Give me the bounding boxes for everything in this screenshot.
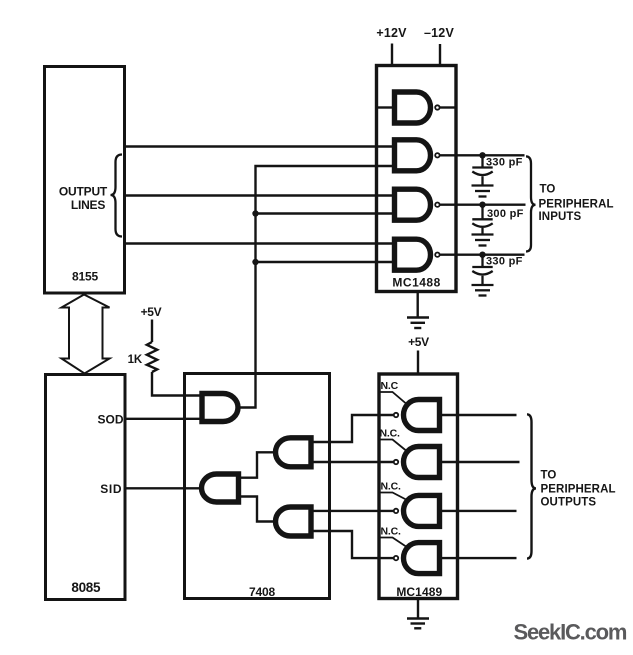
wire output line 1 from 8155 <box>125 145 392 147</box>
value label C2 300 pF <box>487 208 524 220</box>
IC MC1488 <box>377 66 457 292</box>
svg-text:PERIPHERAL: PERIPHERAL <box>541 484 616 496</box>
wire U1A output <box>440 106 456 108</box>
stub N.C. R2 <box>380 440 407 451</box>
receiver gate R2 (MC1489, faces left) <box>404 447 440 478</box>
brace to peripheral outputs <box>527 414 536 558</box>
wire output line 3 from 8155 <box>125 242 392 244</box>
label N.C. R4 <box>381 526 401 538</box>
junction riser-gate3 <box>252 210 392 216</box>
value label C3 330 pF <box>486 256 523 268</box>
wire gate A output riser to MC1488 <box>238 166 392 408</box>
ground C3 <box>472 285 494 296</box>
svg-text:TO: TO <box>541 470 557 482</box>
svg-text:300 pF: 300 pF <box>487 208 524 220</box>
label 8085 <box>71 580 101 595</box>
wire SOD <box>125 418 200 420</box>
supply +5V (MC1489) <box>408 335 429 349</box>
IC 7408 <box>185 374 330 599</box>
bus arrow 8155-8085 <box>62 295 110 374</box>
stub N.C. R1 <box>380 392 407 404</box>
ground C1 <box>472 186 494 197</box>
wire R2 to C bottom input <box>312 461 394 463</box>
svg-text:OUTPUTS: OUTPUTS <box>541 497 597 509</box>
label N.C. R2 <box>380 428 400 440</box>
wire +12V lead <box>391 44 393 66</box>
svg-text:MC1489: MC1489 <box>396 585 442 599</box>
label TO PERIPHERAL OUTPUTS <box>541 470 616 509</box>
svg-text:SOD: SOD <box>97 412 123 426</box>
svg-text:–12V: –12V <box>424 26 454 40</box>
label SID <box>100 482 122 496</box>
capacitor C2 300pF <box>472 205 492 235</box>
label 7408 <box>249 585 275 599</box>
watermark SeekIC.com <box>514 620 627 645</box>
junction U1D-cap <box>479 252 485 258</box>
brace output lines <box>111 155 123 237</box>
supply +12V <box>376 26 407 40</box>
label MC1489 <box>396 585 442 599</box>
label N.C. R3 <box>381 481 401 493</box>
svg-text:INPUTS: INPUTS <box>539 211 582 223</box>
AND gate B (7408 SID combine, faces left) <box>202 474 239 502</box>
wire U1B output <box>440 154 525 156</box>
svg-text:+12V: +12V <box>376 26 407 40</box>
bubble U1D <box>435 253 439 257</box>
wire R2 to peripheral <box>442 461 520 463</box>
ground MC1488 <box>407 292 429 329</box>
driver gate U1D (MC1488) <box>395 239 431 270</box>
receiver gate R1 (MC1489, faces left) <box>404 400 440 431</box>
bubble U1A <box>435 105 439 109</box>
bubble R3 <box>394 509 398 513</box>
capacitor C3 330pF <box>472 255 492 285</box>
driver gate U1B (MC1488) <box>395 140 431 171</box>
svg-text:SID: SID <box>100 482 122 496</box>
label OUTPUT LINES <box>59 185 108 213</box>
wire D output to B input <box>241 497 275 522</box>
svg-text:OUTPUT: OUTPUT <box>59 185 108 199</box>
wire U1D output <box>440 253 525 255</box>
IC MC1489 <box>379 374 458 599</box>
wire R4 to D bottom input <box>312 531 394 558</box>
svg-text:PERIPHERAL: PERIPHERAL <box>539 199 614 211</box>
wire R3 to D top input <box>312 510 394 512</box>
label MC1488 <box>392 275 440 289</box>
svg-text:1K: 1K <box>128 354 143 366</box>
IC 8085 <box>46 375 126 600</box>
stub N.C. R3 <box>380 493 407 500</box>
svg-text:N.C.: N.C. <box>380 428 400 440</box>
wire R1 to C top input <box>312 415 394 442</box>
bubble U1C <box>435 203 439 207</box>
svg-text:TO: TO <box>540 184 556 196</box>
IC 8155 <box>45 67 125 294</box>
AND gate C (7408, faces left) <box>276 438 312 467</box>
brace to peripheral inputs <box>526 156 536 251</box>
bubble R4 <box>394 556 398 560</box>
wire U1C output <box>440 203 526 205</box>
wire +5V lead MC1489 <box>417 351 419 375</box>
stub N.C. R4 <box>380 538 407 547</box>
junction riser-gate4 <box>252 259 392 265</box>
driver gate U1A (MC1488) <box>395 92 431 123</box>
svg-text:330 pF: 330 pF <box>486 256 523 268</box>
wire SID <box>125 487 203 489</box>
receiver gate R4 (MC1489, faces left) <box>404 543 440 574</box>
svg-text:8085: 8085 <box>71 580 101 595</box>
supply -12V <box>424 26 454 40</box>
value label C1 330 pF <box>486 157 523 169</box>
wire R1 to peripheral <box>442 414 517 416</box>
bubble R1 <box>394 413 398 417</box>
svg-text:N.C.: N.C. <box>381 526 401 538</box>
bubble R2 <box>394 460 398 464</box>
label 8155 <box>72 270 98 284</box>
junction U1C-cap <box>479 202 485 208</box>
wire resistor to gate A <box>152 372 200 396</box>
label 1K <box>128 354 143 366</box>
svg-text:N.C.: N.C. <box>381 481 401 493</box>
supply +5V (pullup) <box>141 305 162 319</box>
wire R4 to peripheral <box>442 557 517 559</box>
svg-text:8155: 8155 <box>72 270 98 284</box>
capacitor C1 330pF <box>472 155 492 185</box>
wire -12V lead <box>439 44 441 66</box>
ground MC1489 <box>407 599 429 629</box>
svg-text:+5V: +5V <box>141 305 162 319</box>
AND gate A (7408 SOD gate) <box>202 394 238 422</box>
label TO PERIPHERAL INPUTS <box>539 184 614 224</box>
svg-text:+5V: +5V <box>408 335 429 349</box>
wire R3 to peripheral <box>442 510 517 512</box>
svg-text:330 pF: 330 pF <box>486 157 523 169</box>
wire C output to B input <box>241 452 275 477</box>
label SOD <box>97 412 123 426</box>
receiver gate R3 (MC1489, faces left) <box>404 495 440 526</box>
wire +5V lead <box>151 320 153 343</box>
AND gate D (7408, faces left) <box>276 507 312 536</box>
svg-text:N.C: N.C <box>381 380 399 392</box>
wire U1A input <box>377 106 392 108</box>
wire output line 2 from 8155 <box>125 194 392 196</box>
svg-text:SeekIC.com: SeekIC.com <box>514 620 627 645</box>
driver gate U1C (MC1488) <box>395 189 431 220</box>
svg-text:MC1488: MC1488 <box>392 275 440 289</box>
svg-text:7408: 7408 <box>249 585 275 599</box>
junction U1B-cap <box>479 152 485 158</box>
resistor 1K <box>147 342 157 372</box>
label N.C. R1 <box>381 380 399 392</box>
ground C2 <box>472 235 494 246</box>
svg-text:LINES: LINES <box>71 198 106 212</box>
bubble U1B <box>435 153 439 157</box>
